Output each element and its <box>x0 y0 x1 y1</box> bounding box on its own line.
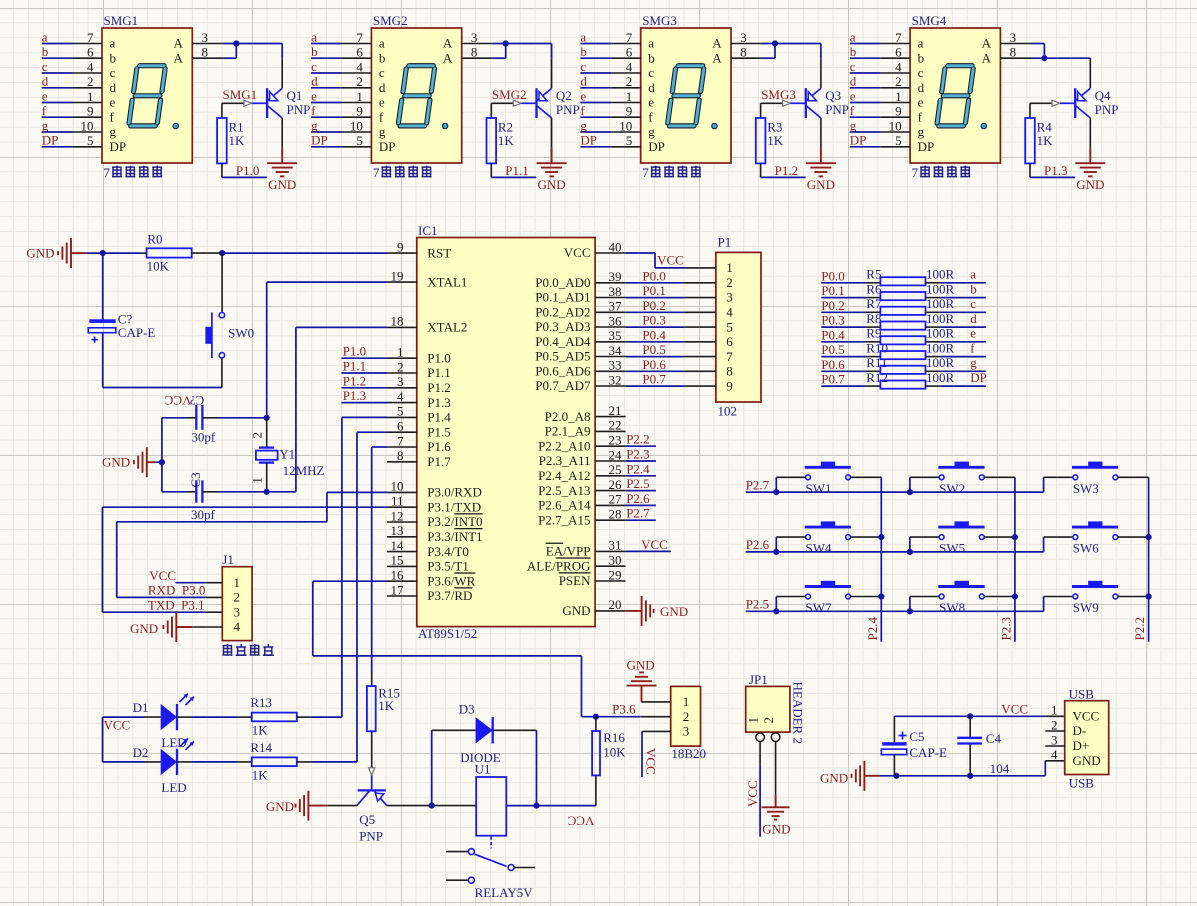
svg-text:GND: GND <box>266 799 294 814</box>
svg-text:ALE/PROG: ALE/PROG <box>527 558 591 573</box>
svg-text:2: 2 <box>683 709 690 724</box>
svg-text:8: 8 <box>726 364 733 379</box>
svg-text:P0.2_AD2: P0.2_AD2 <box>535 305 590 320</box>
svg-text:A: A <box>443 36 453 51</box>
svg-text:P0.2: P0.2 <box>642 298 665 313</box>
svg-text:P2.3: P2.3 <box>626 447 649 462</box>
svg-text:f: f <box>110 110 115 125</box>
svg-text:DP: DP <box>918 139 935 154</box>
svg-text:1: 1 <box>87 89 94 104</box>
push-button SW9 <box>1044 581 1149 615</box>
svg-text:A: A <box>982 51 992 66</box>
diode D3 (flyback) <box>432 702 537 806</box>
svg-text:DP: DP <box>648 139 665 154</box>
resistor R13 1K <box>192 695 342 737</box>
svg-text:30: 30 <box>609 553 622 568</box>
svg-text:2: 2 <box>234 590 241 605</box>
resistor R6 100R <box>103 281 1152 900</box>
svg-text:a: a <box>379 36 385 51</box>
connector P1 (102) <box>716 235 761 419</box>
svg-text:d: d <box>970 311 977 326</box>
svg-text:P2.6: P2.6 <box>626 491 650 506</box>
svg-text:5: 5 <box>397 404 404 419</box>
J1 caption (Chinese) <box>223 644 274 655</box>
capacitor C? 30pf (upper) <box>162 405 267 444</box>
svg-text:1: 1 <box>683 694 690 709</box>
svg-text:P0.7: P0.7 <box>642 372 666 387</box>
ground symbol at crystal caps <box>102 418 165 492</box>
7-segment display SMG2 <box>371 13 461 180</box>
svg-text:DP: DP <box>110 139 127 154</box>
svg-text:4: 4 <box>1051 747 1058 762</box>
svg-text:P2.5: P2.5 <box>626 476 649 491</box>
svg-text:EA/VPP: EA/VPP <box>546 544 591 559</box>
electrolytic capacitor C? CAP-E <box>88 253 155 387</box>
svg-text:VCC: VCC <box>657 252 684 267</box>
svg-text:b: b <box>970 281 977 296</box>
svg-text:VCC: VCC <box>149 568 176 583</box>
resistor R10 100R <box>103 340 1152 900</box>
svg-text:3: 3 <box>202 30 209 45</box>
svg-text:1: 1 <box>1051 703 1058 718</box>
svg-text:JP1: JP1 <box>749 672 768 687</box>
push-button SW6 <box>1044 521 1149 555</box>
svg-text:RXD P3.0: RXD P3.0 <box>148 583 205 598</box>
svg-text:c: c <box>970 296 976 311</box>
wires P0.0-P0.7 from IC to P1 <box>626 268 716 386</box>
ground at Q5 <box>266 791 357 821</box>
svg-text:SMG2: SMG2 <box>492 87 527 102</box>
svg-text:b: b <box>42 44 49 59</box>
svg-text:5: 5 <box>87 133 94 148</box>
column wire P2.2 <box>1132 477 1152 642</box>
net labels P1.0-P1.3 at IC pins 1-4 <box>342 344 388 403</box>
svg-text:4: 4 <box>356 59 363 74</box>
svg-text:9: 9 <box>726 379 733 394</box>
svg-text:e: e <box>311 88 317 103</box>
svg-text:10: 10 <box>391 479 404 494</box>
svg-text:2: 2 <box>397 359 404 374</box>
svg-text:17: 17 <box>391 582 405 597</box>
svg-text:29: 29 <box>609 567 622 582</box>
svg-text:7: 7 <box>726 349 733 364</box>
LED D2 <box>103 738 195 795</box>
connector 18B20 <box>671 686 706 761</box>
svg-text:8: 8 <box>397 448 404 463</box>
svg-text:23: 23 <box>609 433 622 448</box>
svg-text:26: 26 <box>609 477 623 492</box>
svg-text:e: e <box>648 95 654 110</box>
svg-text:g: g <box>580 118 587 133</box>
svg-text:13: 13 <box>391 523 404 538</box>
svg-text:A: A <box>174 36 184 51</box>
J1 pin1 VCC wire <box>149 568 222 583</box>
svg-text:e: e <box>110 95 116 110</box>
svg-text:R11: R11 <box>866 355 887 370</box>
segment input pins a-g,DP of SMG2 <box>311 29 371 148</box>
wire P3.1/TXD (pin 11) to J1 pin 3 <box>102 507 387 612</box>
row wire P2.7 <box>746 477 1044 492</box>
svg-text:4: 4 <box>87 59 94 74</box>
resistor R11 100R <box>103 355 1152 900</box>
svg-text:PNP: PNP <box>556 102 580 117</box>
wire from SMG4 pins 3/8 to Q4 emitter <box>1031 44 1090 89</box>
svg-text:c: c <box>311 59 317 74</box>
net labels P2.2-P2.7 at IC pins 23-28 <box>626 432 656 521</box>
svg-text:a: a <box>311 29 317 44</box>
svg-text:f: f <box>648 110 653 125</box>
resistor R12 100R <box>103 370 1152 900</box>
svg-text:10K: 10K <box>603 744 626 759</box>
svg-text:2: 2 <box>895 74 902 89</box>
connector JP1 HEADER 2 <box>746 672 806 744</box>
svg-text:37: 37 <box>609 299 623 314</box>
svg-text:6: 6 <box>356 45 363 60</box>
resistor R3 1K <box>756 103 784 163</box>
svg-text:g: g <box>42 118 49 133</box>
svg-text:1K: 1K <box>378 698 395 713</box>
net-port arrow into Q5 base <box>369 768 375 791</box>
svg-text:d: d <box>311 74 318 89</box>
net label P1.1 wire <box>491 163 536 178</box>
svg-text:6: 6 <box>895 45 902 60</box>
svg-text:P0.0_AD0: P0.0_AD0 <box>535 275 590 290</box>
svg-text:R5: R5 <box>866 267 881 282</box>
svg-text:e: e <box>379 95 385 110</box>
svg-text:P3.1/TXD: P3.1/TXD <box>427 499 481 514</box>
connector J1 (ISP header) <box>222 552 252 641</box>
svg-text:R12: R12 <box>866 370 888 385</box>
svg-text:A: A <box>443 51 453 66</box>
svg-text:3: 3 <box>740 30 747 45</box>
svg-text:30pf: 30pf <box>191 429 216 444</box>
svg-text:c: c <box>580 59 586 74</box>
svg-text:P2.7: P2.7 <box>626 506 650 521</box>
svg-text:1K: 1K <box>498 133 515 148</box>
svg-text:3: 3 <box>726 290 733 305</box>
svg-text:9: 9 <box>397 239 404 254</box>
svg-text:LED: LED <box>161 780 186 795</box>
svg-text:d: d <box>110 80 117 95</box>
svg-text:a: a <box>110 36 116 51</box>
svg-text:e: e <box>918 95 924 110</box>
ground symbol under Q3 <box>806 118 836 192</box>
wire P1.5 (pin 6) to R14 <box>357 432 387 762</box>
svg-text:C5: C5 <box>909 729 924 744</box>
svg-text:P3.4/T0: P3.4/T0 <box>427 544 469 559</box>
svg-text:7: 7 <box>397 433 404 448</box>
svg-text:P1.0: P1.0 <box>343 344 366 359</box>
svg-text:SW7: SW7 <box>806 600 833 615</box>
svg-text:28: 28 <box>609 507 622 522</box>
svg-text:P2.0_A8: P2.0_A8 <box>545 409 591 424</box>
svg-text:P0.7_AD7: P0.7_AD7 <box>535 378 591 393</box>
svg-text:9: 9 <box>895 104 902 119</box>
ground symbol under Q2 <box>537 118 567 192</box>
svg-text:3: 3 <box>1010 30 1017 45</box>
svg-text:P2.3: P2.3 <box>998 617 1013 640</box>
svg-text:P2.3_A11: P2.3_A11 <box>539 453 591 468</box>
svg-text:P0.6: P0.6 <box>642 357 666 372</box>
svg-text:VCC: VCC <box>641 537 668 552</box>
svg-text:D3: D3 <box>459 702 475 717</box>
common anode pins 3,8 of SMG4 <box>1000 30 1031 60</box>
push-button SW8 <box>907 581 1015 615</box>
net label P1.0 wire <box>222 163 267 178</box>
svg-text:3: 3 <box>1051 732 1058 747</box>
svg-text:6: 6 <box>726 334 733 349</box>
svg-text:PNP: PNP <box>825 102 849 117</box>
svg-text:P2.6_A14: P2.6_A14 <box>538 498 591 513</box>
svg-text:b: b <box>850 44 857 59</box>
svg-text:c: c <box>42 59 48 74</box>
svg-text:1K: 1K <box>229 133 246 148</box>
IC1 left-side pins <box>387 239 483 603</box>
svg-text:8: 8 <box>471 45 478 60</box>
J1 pin4 ground <box>130 612 222 642</box>
wire SW0/C? bottom loop <box>103 387 222 389</box>
net label VCC at LEDs <box>103 717 131 762</box>
svg-text:g: g <box>379 124 386 139</box>
base wire with net-label arrow (SMG2) <box>491 87 536 107</box>
wire GND to R0 and node <box>86 250 146 256</box>
segment input pins a-g,DP of SMG1 <box>42 29 102 148</box>
svg-text:1K: 1K <box>252 768 269 783</box>
svg-text:SW0: SW0 <box>228 326 254 341</box>
svg-text:c: c <box>918 65 924 80</box>
svg-text:4: 4 <box>626 59 633 74</box>
svg-text:f: f <box>311 103 316 118</box>
wire Q5 to relay coil / R16 <box>387 803 596 829</box>
svg-text:5: 5 <box>626 133 633 148</box>
svg-text:P2.4_A12: P2.4_A12 <box>538 468 590 483</box>
svg-text:a: a <box>648 36 654 51</box>
wire P1.4 (pin 5) to R13 <box>342 417 387 717</box>
svg-text:3: 3 <box>471 30 478 45</box>
wire P3.6 (pin 16) to 18B20/R16 <box>313 581 671 720</box>
svg-text:1: 1 <box>234 575 241 590</box>
svg-text:CAP-E: CAP-E <box>909 745 947 760</box>
svg-text:c: c <box>648 65 654 80</box>
base wire with net-label arrow (SMG4) <box>1030 100 1075 106</box>
svg-text:RELAY5V: RELAY5V <box>475 885 534 900</box>
svg-text:P1.6: P1.6 <box>427 439 451 454</box>
svg-text:PNP: PNP <box>1095 102 1119 117</box>
svg-text:d: d <box>42 74 49 89</box>
svg-text:1: 1 <box>746 717 761 724</box>
transistor Q1 PNP <box>267 88 310 118</box>
svg-text:VCC: VCC <box>1073 709 1100 724</box>
svg-text:20: 20 <box>609 597 622 612</box>
svg-text:DP: DP <box>311 133 328 148</box>
svg-text:22: 22 <box>609 418 622 433</box>
push-button SW1 <box>773 462 881 496</box>
resistor R15 1K <box>367 672 400 768</box>
svg-text:10: 10 <box>889 118 902 133</box>
svg-text:39: 39 <box>609 269 622 284</box>
svg-text:P0.4: P0.4 <box>642 327 666 342</box>
wire VCC pin40 to P1 pin1 <box>626 252 716 268</box>
ground above 18B20 <box>627 658 671 702</box>
capacitor C4 104 <box>957 716 1001 776</box>
push-button SW2 <box>907 462 1015 496</box>
svg-text:19: 19 <box>391 268 404 283</box>
svg-text:P0.3: P0.3 <box>642 313 665 328</box>
svg-text:d: d <box>850 74 857 89</box>
svg-text:VCC: VCC <box>644 748 659 775</box>
svg-text:38: 38 <box>609 284 622 299</box>
LED D1 <box>103 694 195 750</box>
svg-text:SW4: SW4 <box>806 541 833 556</box>
svg-text:P0.3_AD3: P0.3_AD3 <box>535 319 590 334</box>
wire P1.6 (pin 7) to R15 <box>372 447 387 672</box>
svg-text:4: 4 <box>726 305 733 320</box>
svg-text:SMG4: SMG4 <box>912 13 947 28</box>
svg-text:9: 9 <box>626 104 633 119</box>
svg-text:GND: GND <box>538 177 566 192</box>
svg-text:GND: GND <box>1076 177 1104 192</box>
svg-text:e: e <box>970 326 976 341</box>
push-button SW4 <box>773 521 881 555</box>
svg-text:IC1: IC1 <box>418 223 438 238</box>
svg-text:c: c <box>379 65 385 80</box>
svg-text:g: g <box>918 124 925 139</box>
svg-text:SW3: SW3 <box>1073 481 1099 496</box>
resistor R1 1K <box>217 103 245 163</box>
svg-text:P3.0/RXD: P3.0/RXD <box>427 485 482 500</box>
resistor R2 1K <box>487 103 515 163</box>
svg-text:RST: RST <box>427 245 451 260</box>
transistor Q4 PNP <box>1075 88 1118 118</box>
svg-text:8: 8 <box>740 45 747 60</box>
segment input pins a-g,DP of SMG4 <box>850 29 910 148</box>
svg-text:DP: DP <box>970 370 987 385</box>
svg-text:2: 2 <box>356 74 363 89</box>
common anode pins 3,8 of SMG1 <box>192 30 223 60</box>
wire XTAL1 (pin 19) to crystal node <box>264 282 387 421</box>
svg-text:102: 102 <box>718 403 738 418</box>
svg-text:2: 2 <box>761 717 776 724</box>
svg-text:35: 35 <box>609 328 622 343</box>
svg-text:GND: GND <box>627 658 655 673</box>
svg-text:100R: 100R <box>926 267 955 282</box>
wire from SMG1 pins 3/8 to Q1 emitter <box>223 40 282 88</box>
svg-text:DP: DP <box>379 139 396 154</box>
7-segment display SMG1 <box>102 13 192 180</box>
svg-text:10: 10 <box>350 118 363 133</box>
svg-text:GND: GND <box>660 604 688 619</box>
svg-text:R13: R13 <box>250 695 272 710</box>
svg-text:SW2: SW2 <box>939 481 965 496</box>
push-button SW7 <box>773 581 881 615</box>
svg-text:P0.6: P0.6 <box>821 357 845 372</box>
svg-text:HEADER 2: HEADER 2 <box>791 682 806 744</box>
svg-text:f: f <box>379 110 384 125</box>
svg-text:P0.0: P0.0 <box>642 268 665 283</box>
svg-text:a: a <box>580 29 586 44</box>
svg-text:SW8: SW8 <box>939 600 965 615</box>
svg-text:P2.4: P2.4 <box>626 461 650 476</box>
svg-text:34: 34 <box>609 343 623 358</box>
power ground GND at RST network <box>26 238 86 268</box>
svg-text:VCC: VCC <box>745 780 760 807</box>
svg-text:7: 7 <box>373 165 380 180</box>
svg-text:PNP: PNP <box>359 829 383 844</box>
svg-text:27: 27 <box>609 492 623 507</box>
svg-text:2: 2 <box>626 74 633 89</box>
svg-text:P3.2/INT0: P3.2/INT0 <box>427 514 482 529</box>
net label P1.3 wire <box>1030 163 1075 178</box>
svg-text:1K: 1K <box>252 723 269 738</box>
svg-text:30pf: 30pf <box>191 507 216 522</box>
svg-text:P1.7: P1.7 <box>427 454 451 469</box>
svg-text:10: 10 <box>81 118 94 133</box>
svg-text:P3.7/RD: P3.7/RD <box>427 588 472 603</box>
svg-text:VCC: VCC <box>165 393 192 408</box>
svg-text:P0.5_AD5: P0.5_AD5 <box>535 349 590 364</box>
resistor R4 1K <box>1025 103 1053 163</box>
svg-text:P2.2: P2.2 <box>1132 617 1147 640</box>
svg-text:Y1: Y1 <box>279 447 295 462</box>
7-segment display SMG4 <box>910 13 1000 180</box>
svg-text:VCC: VCC <box>1001 701 1028 716</box>
7-segment display SMG3 <box>641 13 731 180</box>
svg-text:e: e <box>42 88 48 103</box>
svg-text:P1.2: P1.2 <box>343 373 366 388</box>
svg-text:P2.4: P2.4 <box>865 617 880 641</box>
relay coil U1 <box>475 761 507 835</box>
push-button SW5 <box>907 521 1015 555</box>
svg-text:c: c <box>110 65 116 80</box>
svg-text:A: A <box>982 36 992 51</box>
svg-text:104: 104 <box>990 761 1010 776</box>
svg-text:P0.2: P0.2 <box>821 298 844 313</box>
svg-text:GND: GND <box>268 177 296 192</box>
svg-text:D+: D+ <box>1073 738 1090 753</box>
svg-text:d: d <box>379 80 386 95</box>
svg-text:g: g <box>110 124 117 139</box>
push-button SW0 (reset) <box>205 253 254 387</box>
svg-text:GND: GND <box>130 621 158 636</box>
svg-text:6: 6 <box>397 419 404 434</box>
svg-text:P3.6: P3.6 <box>612 702 636 717</box>
JP1 pin1 VCC wire <box>745 742 760 837</box>
svg-text:2: 2 <box>726 275 733 290</box>
svg-text:10K: 10K <box>147 258 170 273</box>
resistor R5 100R <box>103 267 1152 900</box>
svg-text:8: 8 <box>202 45 209 60</box>
svg-text:12: 12 <box>391 508 404 523</box>
svg-text:GND: GND <box>762 822 790 837</box>
IC U1 AT89S51/52 body <box>417 223 595 641</box>
column wire P2.4 <box>865 477 885 642</box>
svg-text:P2.2_A10: P2.2_A10 <box>538 438 590 453</box>
svg-text:9: 9 <box>87 104 94 119</box>
svg-text:P0.3: P0.3 <box>821 313 844 328</box>
resistor R8 100R <box>103 311 1152 900</box>
svg-text:GND: GND <box>562 603 590 618</box>
net label VCC at EA/VPP pin 31 <box>626 537 671 552</box>
svg-text:2: 2 <box>87 74 94 89</box>
svg-text:VCC: VCC <box>564 245 591 260</box>
svg-text:P0.7: P0.7 <box>821 372 845 387</box>
svg-text:4: 4 <box>895 59 902 74</box>
svg-text:100R: 100R <box>926 326 955 341</box>
svg-text:33: 33 <box>609 358 622 373</box>
electrolytic capacitor C5 CAP-E <box>881 716 947 776</box>
svg-text:1: 1 <box>356 89 363 104</box>
svg-text:4: 4 <box>234 619 241 634</box>
